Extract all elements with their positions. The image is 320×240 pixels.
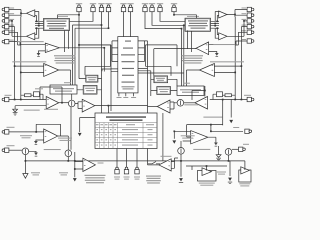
connector pin TOP1 xyxy=(77,7,81,11)
wire A1 output to pins L1 L2 xyxy=(9,10,27,18)
wire table-left injection arrow xyxy=(80,118,95,133)
wire bundle box1 to amps xyxy=(35,21,44,28)
wire buffer A right feedback xyxy=(192,86,205,100)
junction xyxy=(234,14,236,16)
connector pin R7 (mid) xyxy=(247,97,251,101)
wire power amp left inputs xyxy=(15,66,44,72)
wire C4 to bus xyxy=(67,157,69,161)
junction xyxy=(173,14,175,16)
junction xyxy=(204,90,206,92)
op-amp power amp left xyxy=(44,64,59,77)
op-amp B right analog amp 2 xyxy=(157,100,170,113)
junction xyxy=(173,130,175,132)
wire L8 to low amp xyxy=(9,131,44,133)
wire ground stub gain select xyxy=(39,51,46,53)
label center caption xyxy=(217,172,226,173)
op-amp A2R right output driver xyxy=(219,33,227,40)
ground (gain select left) xyxy=(37,53,41,56)
ground (gain select right) xyxy=(215,53,219,56)
wire br amp output left xyxy=(148,149,159,165)
ground (low left amp) xyxy=(34,141,38,144)
connector pin TOP9 xyxy=(158,7,162,11)
wire bundle box2 to right amps xyxy=(211,21,220,28)
junction xyxy=(11,20,13,22)
wire L9 to C5 xyxy=(9,149,22,151)
wire vertical from amp BR down xyxy=(162,113,164,161)
box: output amp icon xyxy=(198,171,217,182)
wire low amp feedback xyxy=(36,124,60,136)
bus wire bottom xyxy=(25,160,230,162)
ground small right xyxy=(218,146,220,155)
connector pin L6 (gain select input) xyxy=(5,39,9,43)
connector pin TOP10 xyxy=(172,7,176,11)
wire br amp inputs xyxy=(171,158,178,168)
connector pin TOP4 xyxy=(106,7,110,11)
ground (right low amp) xyxy=(214,143,218,146)
label 1/4 reference left mid xyxy=(24,110,40,111)
junction xyxy=(78,14,80,16)
wire right trunk mirror xyxy=(146,31,197,76)
op-amp B analog amp 1 xyxy=(82,99,95,112)
wire buffer A right out to current source xyxy=(184,102,195,104)
wire small boxes left connections xyxy=(77,45,102,90)
op-amp low left xyxy=(44,129,58,143)
label above box1 xyxy=(58,15,68,18)
resistor boxes in reference path xyxy=(25,94,32,97)
op-amp power amp right xyxy=(199,64,214,77)
connector pin TOP5 xyxy=(121,7,125,11)
junction xyxy=(181,28,183,30)
wire top pin 93 to box1 right xyxy=(70,12,94,22)
connector pin TOP8 xyxy=(150,7,154,11)
junction xyxy=(67,160,69,162)
box: small network left lower xyxy=(83,86,97,95)
wire feedback vertical x235.2 xyxy=(235,17,238,100)
wire ground stub gain select right xyxy=(209,52,217,54)
wire feed vertical bottom center xyxy=(75,152,83,177)
ground (left reference) xyxy=(13,109,18,112)
wire control box right verticals xyxy=(145,41,154,113)
substrate arrow bottom center xyxy=(73,178,77,181)
connector pin R8 xyxy=(245,129,249,133)
op-amp reference buffer A right xyxy=(195,97,208,110)
junction xyxy=(35,131,37,133)
junction xyxy=(20,12,22,14)
connector pin OUT-L2 xyxy=(5,13,9,17)
connector pin OUT-R2 xyxy=(247,13,251,17)
wire C5 right to ground xyxy=(29,151,36,152)
box: central control logic (POR/enable/bias/reference) xyxy=(118,37,138,93)
connector pin OUT-L3 xyxy=(5,19,9,23)
op-amp right low (headphone) xyxy=(191,131,208,144)
label under wire xyxy=(20,135,32,136)
junction xyxy=(243,20,245,22)
wire top pin 108.5 down xyxy=(75,12,109,85)
connector pin OUT-R5 xyxy=(247,30,251,34)
op-amp gain select left xyxy=(45,43,59,52)
op-amp A2 left output driver xyxy=(27,33,35,40)
wire control box left stubs xyxy=(102,41,118,71)
junction xyxy=(228,160,230,162)
current source C5 xyxy=(22,148,29,155)
label fb left xyxy=(35,88,43,89)
junction xyxy=(241,65,243,67)
label 1/4 reference right low xyxy=(193,149,210,150)
wire top pin 152 xyxy=(152,12,184,86)
wire top pin 145 to box2 xyxy=(145,12,182,86)
wire right trunk vertical x222.7 xyxy=(222,100,224,126)
wire amp B output xyxy=(95,106,148,113)
current source C1 xyxy=(68,100,75,107)
note paragraph under bottom center amp xyxy=(85,175,106,176)
junction xyxy=(210,124,212,126)
wire output bus left stub xyxy=(174,131,190,139)
label right of C1R xyxy=(184,104,198,105)
table grid xyxy=(95,123,157,143)
label 1/4 reference under buffer xyxy=(44,109,58,110)
label out xyxy=(98,163,104,164)
op-amp A1R right output driver xyxy=(219,11,227,18)
wire C6 down to ground xyxy=(180,154,182,177)
box: voltage reference icon xyxy=(239,170,251,182)
wire C1R to amp BR inputs xyxy=(170,102,177,109)
note paragraph right xyxy=(182,55,204,56)
wire top pins 123.5,130.5 into control box xyxy=(124,12,131,37)
wire top pin 174 down-right to box2 xyxy=(174,12,197,19)
labels bottom left xyxy=(31,172,40,173)
wire C1 to amp B inputs xyxy=(75,102,82,109)
box: clamp box right xyxy=(157,87,171,95)
wire C1 down long xyxy=(70,107,72,150)
connector pin R6 (gain select input) xyxy=(247,39,251,43)
connector pin OUT-R1 xyxy=(247,7,251,11)
box: gain selector network (left) xyxy=(44,19,70,31)
junction xyxy=(74,160,76,162)
box: gain selector network (right) xyxy=(185,18,211,31)
wire C5 down to arrow xyxy=(24,155,26,174)
op-amp gain select right xyxy=(196,42,209,55)
resistor boxes in reference path right xyxy=(225,94,232,97)
junction xyxy=(36,20,38,22)
junction xyxy=(206,165,208,167)
label speaker amp left xyxy=(58,138,72,139)
box: small network right upper xyxy=(154,76,168,83)
label from-gain-select xyxy=(17,41,44,42)
connector pin L8 xyxy=(5,130,9,134)
note paragraph bottom right of pins xyxy=(146,176,161,177)
wire low amp minus to ground xyxy=(36,140,44,141)
wire control box left vertical xyxy=(79,15,112,111)
junction xyxy=(180,160,182,162)
junction xyxy=(216,20,218,22)
wire C7 to pin R9 xyxy=(232,148,239,150)
labels under control box xyxy=(119,93,134,96)
wire into voltage ref xyxy=(230,161,245,170)
wire power amp left output xyxy=(59,70,71,85)
box: wide network left xyxy=(50,85,77,94)
wire C1 up to box xyxy=(71,94,73,100)
wire low amp output down xyxy=(58,136,69,150)
current source C7 xyxy=(225,149,232,156)
wire L7 to buffer xyxy=(9,99,46,101)
label gain select amp right xyxy=(213,44,235,45)
connector pin BOT2 xyxy=(124,170,128,174)
junction xyxy=(101,24,103,26)
wire L6 pin to gain select input xyxy=(9,42,45,45)
wire small boxes right connections xyxy=(151,79,177,90)
wire A1R output to pins R1 R2 xyxy=(227,10,247,18)
wire right low inputs xyxy=(183,137,191,141)
connector pin L9 xyxy=(5,148,9,152)
caption output amp xyxy=(199,183,215,184)
wire R6 pin to gain select right input xyxy=(209,41,248,45)
box: wide network right xyxy=(177,86,204,95)
label near arrow xyxy=(181,135,195,136)
connector pin BOT3 xyxy=(135,170,139,174)
connector pin TOP2 xyxy=(91,7,95,11)
table: gain control truth table xyxy=(95,113,157,149)
connector pin R9 xyxy=(239,147,243,151)
junction xyxy=(61,102,63,104)
connector pin L7 (mid) xyxy=(5,97,9,101)
label 1/4 reference right mid xyxy=(203,117,222,118)
wire R7 to buffer xyxy=(210,99,247,101)
wire into output amp xyxy=(206,166,208,171)
label 1/4 reference bottom left xyxy=(44,149,61,150)
wire top pin 101.5 down long xyxy=(73,12,102,113)
current source C6 xyxy=(178,148,185,155)
label above xyxy=(161,156,172,157)
switch symbol right of pins xyxy=(148,162,160,164)
wire right low feedback xyxy=(187,125,223,137)
wire C7 down xyxy=(228,155,230,161)
wire C6 up xyxy=(180,141,182,148)
box: small network left upper xyxy=(86,75,98,82)
ground (corner) filled xyxy=(229,161,231,176)
ground (bottom left) xyxy=(34,153,38,156)
connector pin OUT-L4 xyxy=(5,24,9,28)
ground (bottom mid-right) filled xyxy=(179,178,183,181)
connector pin TOP6 xyxy=(128,7,132,11)
connector pin OUT-R4 xyxy=(247,24,251,28)
junction xyxy=(210,130,212,132)
wire amp BR output xyxy=(148,106,158,108)
wire second bus right xyxy=(186,166,227,170)
wire reference lower line xyxy=(15,106,46,110)
caption voltage reference xyxy=(239,183,250,184)
wire buffer A feedback xyxy=(40,87,62,103)
wire power amp right inputs xyxy=(214,66,241,72)
junction xyxy=(241,99,243,101)
junction xyxy=(25,160,27,162)
wire top pin 160 to box2 left xyxy=(160,12,185,22)
label above pin R8 xyxy=(233,127,239,128)
arrow to substrate xyxy=(23,174,28,179)
wire A2R output to pins R3 R4 xyxy=(227,21,247,36)
label internal network left xyxy=(12,61,46,62)
injection arrow right xyxy=(172,140,176,143)
connector pin OUT-R3 xyxy=(247,19,251,23)
op-amp A1 left output driver xyxy=(27,10,35,17)
wire feedback vertical x241.4 xyxy=(240,27,242,100)
current source C1R xyxy=(177,100,184,107)
op-amp bottom right (left-pointing) xyxy=(159,159,171,171)
op-amp reference buffer A xyxy=(46,97,59,110)
connector pin BOT1 xyxy=(115,170,119,174)
filled arrow right xyxy=(230,100,232,118)
connector pin TOP7 xyxy=(143,7,147,11)
wire top pin 79 down-left to box1 xyxy=(58,12,80,19)
wire feedback vertical x14.6 xyxy=(14,27,16,100)
junction xyxy=(14,65,16,67)
connector pin OUT-L1 xyxy=(5,7,9,11)
connector pin OUT-L5 xyxy=(5,30,9,34)
wire power amp right output xyxy=(187,70,200,86)
junction xyxy=(108,105,110,107)
label internal network right xyxy=(210,61,244,62)
junction xyxy=(78,44,80,46)
wire gain select output right trunk xyxy=(59,31,110,76)
wire table to bottom pins xyxy=(117,149,137,168)
current source C4 xyxy=(65,150,72,157)
note paragraph left xyxy=(54,55,76,56)
wire buffer A out to current source xyxy=(59,102,69,104)
op-amp bottom center xyxy=(83,158,96,171)
wire feedback vertical x20.8 xyxy=(18,17,21,100)
wire A2 output to pins L3 L4 xyxy=(9,21,27,36)
junction xyxy=(14,99,16,101)
connector pin TOP3 xyxy=(99,7,103,11)
wire control box right stubs xyxy=(138,41,184,73)
junction xyxy=(222,99,224,101)
label above box2 xyxy=(187,15,199,18)
